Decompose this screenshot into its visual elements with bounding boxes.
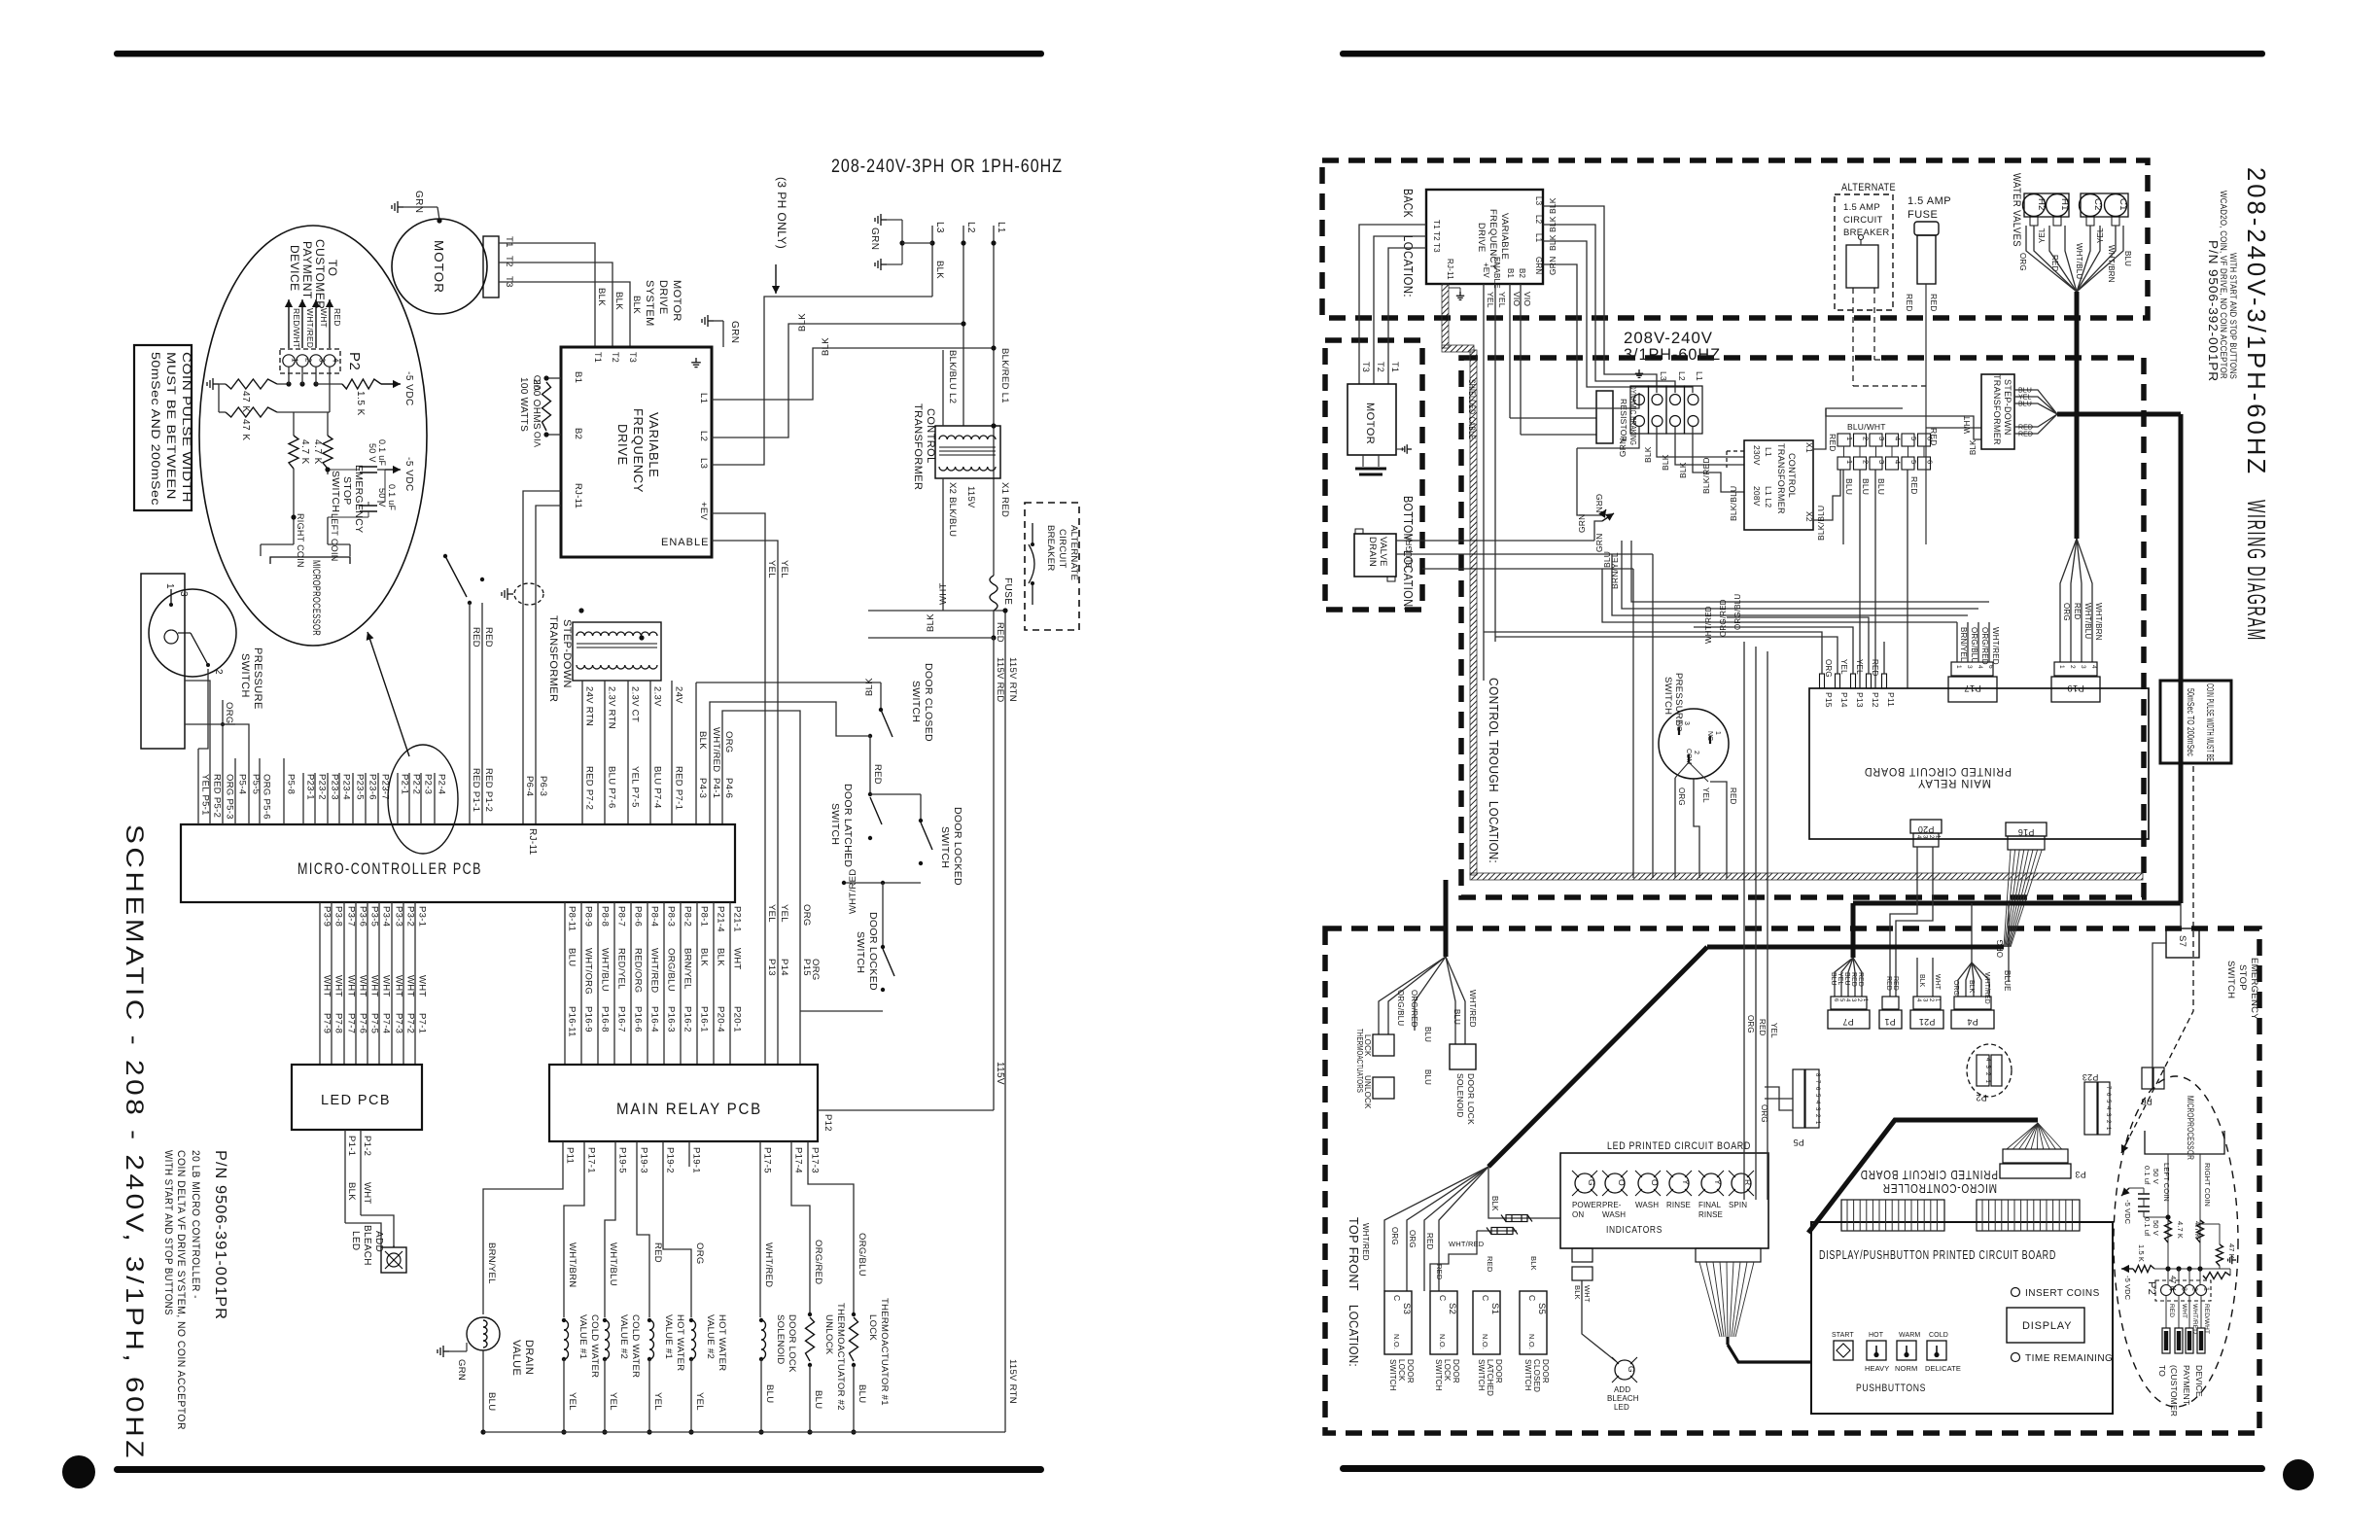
svg-text:WHT/BRN: WHT/BRN (567, 1242, 577, 1287)
svg-text:WHT: WHT (2181, 1304, 2187, 1318)
svg-text:P8-6: P8-6 (633, 906, 644, 927)
svg-text:DOOR LOCKED: DOOR LOCKED (952, 807, 963, 886)
svg-text:WHT/BLU: WHT/BLU (608, 1242, 618, 1286)
svg-text:SWITCH: SWITCH (910, 681, 922, 722)
svg-text:BLUE: BLUE (2003, 970, 2012, 992)
svg-text:SWITCH: SWITCH (855, 931, 866, 973)
dynamic braking resistor (1510, 417, 1596, 419)
LED board tabs (1572, 1248, 1592, 1262)
left coin / right coin wires (right) (2167, 1154, 2169, 1285)
display/pushbutton board (1811, 1222, 2113, 1414)
svg-text:WHT: WHT (369, 975, 380, 997)
P23 connector (right) (2084, 1082, 2097, 1135)
svg-text:BLK/BLU L2: BLK/BLU L2 (947, 350, 958, 403)
micro-controller PCB U2 (181, 824, 735, 902)
svg-text:ORG/BLU: ORG/BLU (1733, 594, 1742, 630)
svg-text:RED: RED (1929, 428, 1939, 446)
svg-text:P5-4: P5-4 (237, 774, 248, 794)
svg-text:L1: L1 (698, 393, 709, 403)
pressure switch PS1 (141, 574, 185, 749)
svg-text:BLK/RED L1: BLK/RED L1 (999, 348, 1010, 403)
svg-text:RINSE: RINSE (1666, 1201, 1691, 1209)
svg-text:L3: L3 (934, 222, 945, 233)
micro PCB wires to main relay PCB (P8/P16) (564, 902, 566, 1065)
svg-text:L1: L1 (1695, 371, 1704, 381)
svg-text:BLEACH: BLEACH (362, 1225, 372, 1266)
svg-text:115V RED: 115V RED (995, 657, 1005, 703)
svg-text:WITH START AND STOP BUTTON: WITH START AND STOP BUTTONS (162, 1150, 174, 1315)
VFD output BLK BLK BLK to terminal block (1543, 206, 1657, 393)
svg-text:HOT WATER: HOT WATER (675, 1314, 685, 1371)
svg-text:P7-6: P7-6 (358, 1013, 368, 1033)
svg-text:RIGHT COIN: RIGHT COIN (2203, 1163, 2212, 1207)
svg-text:RED: RED (1850, 972, 1857, 987)
svg-text:CLOSED: CLOSED (1532, 1359, 1541, 1392)
capacitor 0.1 uF 50 V lower (367, 502, 369, 506)
ribbon cables (1841, 1200, 1944, 1231)
svg-text:RED: RED (1909, 476, 1919, 495)
svg-text:RED P7-2: RED P7-2 (584, 766, 595, 810)
svg-text:GRN: GRN (1577, 514, 1587, 534)
svg-text:WASH: WASH (1602, 1210, 1626, 1219)
svg-text:WHT/RED: WHT/RED (1361, 1223, 1370, 1261)
svg-text:2.3V CT: 2.3V CT (630, 686, 641, 722)
drain valve ground GRN (437, 1346, 449, 1357)
fuse F1 (990, 576, 997, 611)
P2 connector dashed circle (right) (1967, 1044, 2012, 1097)
wire VFD L1 to supply (712, 348, 994, 400)
svg-text:RED: RED (1929, 294, 1939, 312)
ground (right ellipse) (2228, 1256, 2236, 1264)
svg-text:YEL: YEL (1486, 292, 1495, 308)
P20 connector (1910, 820, 1942, 833)
svg-text:P6-4: P6-4 (524, 776, 535, 796)
svg-text:ORG: ORG (1390, 1227, 1399, 1245)
svg-text:BLU: BLU (1423, 1069, 1432, 1085)
svg-text:4: 4 (332, 358, 340, 363)
wire VFD L2 to supply (712, 324, 963, 437)
svg-text:PRESSURE: PRESSURE (252, 647, 263, 710)
svg-text:5: 5 (1909, 437, 1918, 440)
svg-text:ORG: ORG (694, 1242, 705, 1265)
svg-text:LOCK: LOCK (1397, 1359, 1406, 1382)
svg-text:BLK: BLK (346, 1182, 357, 1201)
resistor 1.5 K (right) (2133, 1266, 2154, 1273)
svg-text:YEL P5-1: YEL P5-1 (200, 774, 211, 816)
svg-text:WHT: WHT (346, 975, 357, 997)
svg-text:VALUE: VALUE (510, 1340, 522, 1376)
YEL pair from VFD to P13/P14 (712, 513, 765, 1065)
svg-text:2.3V: 2.3V (652, 686, 663, 707)
GRN arrow 2 (1577, 448, 1602, 515)
svg-text:WHT/BRN: WHT/BRN (2094, 603, 2103, 641)
svg-text:1.5 AMP: 1.5 AMP (1907, 195, 1951, 207)
svg-text:T1: T1 (504, 236, 514, 248)
svg-text:ON: ON (1572, 1210, 1584, 1219)
svg-text:VALUE #2: VALUE #2 (705, 1314, 716, 1359)
svg-text:X1 RED: X1 RED (999, 482, 1010, 517)
control transformer (wiring) (1744, 440, 1813, 530)
svg-text:TRANSFORMER: TRANSFORMER (1776, 443, 1786, 514)
svg-text:BLK: BLK (596, 288, 607, 306)
svg-text:BLU: BLU (567, 948, 577, 966)
svg-text:P17-3: P17-3 (810, 1147, 821, 1173)
svg-text:50 V: 50 V (2152, 1169, 2160, 1184)
svg-text:P4: P4 (1967, 1017, 1977, 1027)
svg-text:6: 6 (1987, 665, 1994, 669)
svg-text:P19-5: P19-5 (617, 1147, 628, 1173)
svg-text:G: G (1587, 1179, 1596, 1186)
drain valve leads GRN BLU BRN/YEL (1396, 540, 1594, 542)
svg-text:PRESSURE: PRESSURE (1673, 673, 1684, 726)
svg-text:ORG/RED: ORG/RED (1980, 627, 1989, 665)
svg-text:LED PRINTED CIRCUIT BOARD: LED PRINTED CIRCUIT BOARD (1607, 1140, 1751, 1152)
svg-text:CONTROL: CONTROL (1787, 453, 1797, 498)
VFD chassis ground GRN (702, 315, 714, 327)
YEL YEL VIO VIO leads (1483, 284, 1485, 681)
svg-text:RED P7-1: RED P7-1 (674, 766, 684, 810)
svg-text:ENABLE: ENABLE (1492, 257, 1501, 289)
svg-text:RED: RED (1425, 1233, 1434, 1250)
svg-text:LOCATION:: LOCATION: (1401, 235, 1416, 297)
svg-text:L1 L2: L1 L2 (1764, 486, 1773, 507)
svg-text:BLK: BLK (613, 292, 624, 310)
svg-text:4: 4 (2090, 665, 2097, 669)
svg-text:S3: S3 (1401, 1303, 1412, 1314)
svg-text:YEL: YEL (2038, 227, 2047, 243)
svg-text:WIRING DIAGRAM: WIRING DIAGRAM (2242, 500, 2271, 642)
terminal block output leads (1577, 426, 1639, 448)
svg-text:BLK: BLK (699, 948, 710, 966)
page frame bars (114, 51, 1044, 57)
door lock solenoid (wiring) (1450, 1044, 1476, 1069)
svg-text:LOCATION:: LOCATION: (1347, 1305, 1360, 1367)
svg-text:SCHEMATIC - 208 - 240V, 3: SCHEMATIC - 208 - 240V, 3/1PH, 60HZ (121, 824, 148, 1461)
svg-text:O: O (1650, 1179, 1660, 1186)
svg-text:H2: H2 (2036, 198, 2047, 211)
svg-text:24V RTN: 24V RTN (584, 686, 595, 726)
VFD (wiring) U1 (1426, 190, 1543, 284)
svg-text:DRAIN: DRAIN (1367, 537, 1378, 567)
svg-text:DOOR LATCHED: DOOR LATCHED (842, 784, 854, 867)
VFD internal ground pin (691, 358, 701, 367)
svg-text:YEL: YEL (1701, 787, 1710, 803)
svg-text:P3: P3 (2075, 1170, 2085, 1179)
svg-text:RED P5-2: RED P5-2 (212, 774, 223, 818)
P16 connector (2006, 822, 2047, 836)
svg-text:VARIABLE: VARIABLE (1499, 213, 1510, 260)
svg-text:HOT WATER: HOT WATER (717, 1314, 727, 1371)
svg-text:P16-1: P16-1 (699, 1006, 710, 1032)
svg-text:DRAIN: DRAIN (523, 1340, 535, 1375)
svg-text:WHT/RED: WHT/RED (305, 308, 315, 348)
svg-text:YEL: YEL (1769, 1023, 1778, 1038)
svg-text:4: 4 (1894, 437, 1903, 440)
RED pair to P1 (469, 603, 471, 824)
svg-text:DOOR: DOOR (1541, 1359, 1550, 1383)
svg-text:MICROPROCESSOR: MICROPROCESSOR (310, 560, 322, 636)
LED PCB bottom wires P1-1 P1-2 (344, 1130, 346, 1223)
svg-text:P7-4: P7-4 (381, 1013, 392, 1033)
connector P2 (payment device) (280, 349, 340, 373)
svg-text:1: 1 (1845, 437, 1854, 440)
svg-text:DRIVE: DRIVE (657, 280, 669, 315)
svg-text:(3 PH ONLY): (3 PH ONLY) (775, 177, 788, 249)
cable fan to P19 (2060, 539, 2077, 662)
svg-text:COLD: COLD (1929, 1332, 1948, 1339)
svg-text:5: 5 (1909, 460, 1918, 464)
svg-text:WHT/RED: WHT/RED (1991, 627, 2000, 665)
svg-text:BLU: BLU (2018, 402, 2032, 408)
svg-text:P7-1: P7-1 (417, 1013, 428, 1033)
svg-text:BLK: BLK (821, 337, 831, 356)
svg-text:MICRO-CONTROLLER: MICRO-CONTROLLER (1882, 1181, 1997, 1195)
svg-text:RED: RED (1729, 787, 1737, 805)
thermoactuators lock/unlock (1373, 1034, 1394, 1056)
ferrite bead on P6 pair (502, 588, 513, 600)
svg-text:BLK: BLK (934, 261, 945, 279)
115V RTN bus (1004, 611, 1006, 1432)
svg-text:RED: RED (1885, 976, 1892, 991)
svg-text:BACK: BACK (1401, 189, 1416, 218)
VFD GRN lead (1543, 264, 1639, 408)
svg-text:WASH: WASH (1635, 1201, 1659, 1209)
P3 connector fan (2007, 1123, 2038, 1149)
svg-text:ADD: ADD (1614, 1385, 1630, 1394)
svg-text:ORG/RED: ORG/RED (813, 1240, 823, 1284)
svg-text:SWITCH: SWITCH (239, 653, 251, 698)
svg-text:100 WATTS: 100 WATTS (518, 377, 529, 432)
svg-text:WHT: WHT (1583, 1285, 1592, 1303)
svg-text:GRN: GRN (869, 227, 880, 250)
svg-text:RED: RED (1486, 1256, 1494, 1273)
svg-text:BLU: BLU (857, 1384, 867, 1403)
svg-text:P23-2: P23-2 (317, 774, 328, 800)
svg-text:BLU: BLU (2018, 388, 2032, 395)
door closed switch S5 (696, 682, 881, 683)
svg-text:(CUSTOMER: (CUSTOMER (2169, 1365, 2179, 1417)
X1 RED lead (1813, 408, 1903, 449)
svg-text:P23-6: P23-6 (367, 774, 378, 800)
door latched switch S1 (869, 736, 871, 794)
motor leads T1 T2 T3 (wiring) (1359, 225, 1426, 384)
microprocessor bracket + label (270, 557, 350, 564)
svg-text:YEL: YEL (1497, 292, 1507, 308)
svg-text:3: 3 (1877, 460, 1886, 464)
svg-text:BLU: BLU (1876, 478, 1886, 495)
svg-text:WHT: WHT (394, 975, 404, 997)
WHT wire to RTN (868, 610, 1005, 612)
svg-text:VALUE #1: VALUE #1 (663, 1314, 674, 1359)
svg-text:1: 1 (2058, 665, 2065, 669)
svg-text:WHT: WHT (1963, 415, 1972, 434)
svg-text:RED: RED (1905, 294, 1914, 312)
svg-text:P4-3: P4-3 (697, 778, 708, 798)
svg-text:P13: P13 (766, 959, 777, 976)
svg-text:T2: T2 (611, 352, 620, 363)
svg-text:P1-2: P1-2 (362, 1136, 372, 1156)
svg-text:N.O.: N.O. (1438, 1334, 1447, 1349)
add bleach LED D1 (345, 1223, 381, 1247)
P7 connector fan (1835, 958, 1853, 997)
connector P19 (2054, 662, 2097, 676)
svg-text:C: C (1481, 1295, 1490, 1301)
thick cable to right edge (2057, 412, 2181, 417)
svg-text:BLK: BLK (1548, 216, 1557, 232)
node bus (right ellipse) (2154, 1268, 2230, 1270)
svg-text:NORM: NORM (1895, 1364, 1917, 1373)
svg-text:RED: RED (1892, 976, 1899, 991)
svg-text:GRN: GRN (1618, 438, 1627, 458)
micro bundle thick cable (1853, 901, 2181, 906)
svg-text:P16-8: P16-8 (600, 1006, 611, 1032)
svg-text:PUSHBUTTONS: PUSHBUTTONS (1856, 1382, 1926, 1394)
svg-text:BRN/YEL: BRN/YEL (682, 948, 693, 990)
svg-text:VIO: VIO (533, 432, 542, 447)
svg-text:RED: RED (1435, 1264, 1444, 1280)
svg-text:RED: RED (483, 627, 494, 647)
svg-text:GRN: GRN (413, 191, 424, 213)
svg-text:P23-1: P23-1 (305, 774, 316, 800)
BLK wire and splices (1488, 1167, 1560, 1218)
svg-text:BLK: BLK (1573, 1285, 1582, 1300)
svg-text:WHT/RED: WHT/RED (763, 1242, 774, 1287)
thermoactuator #2 unlock (791, 1167, 810, 1314)
svg-text:47 K: 47 K (240, 391, 251, 413)
svg-text:YEL: YEL (779, 904, 789, 923)
svg-text:B2: B2 (573, 428, 583, 439)
svg-text:RED: RED (995, 622, 1005, 643)
svg-text:ORG: ORG (801, 904, 812, 927)
svg-text:1: 1 (164, 583, 175, 589)
svg-text:SYSTEM: SYSTEM (644, 280, 655, 327)
svg-text:P2-3: P2-3 (423, 774, 434, 794)
svg-text:DRIVE: DRIVE (1476, 223, 1487, 253)
svg-text:H1: H1 (2059, 198, 2070, 211)
svg-text:MUST BE BETWEEN: MUST BE BETWEEN (164, 352, 178, 500)
door switch S3 S2 S1 S5 boxes (1384, 1291, 1412, 1354)
-5 VDC arrow upper (381, 383, 401, 385)
svg-text:DOOR: DOOR (1494, 1359, 1503, 1383)
svg-text:P17-1: P17-1 (586, 1147, 597, 1173)
svg-text:4: 4 (1977, 665, 1983, 669)
svg-text:BLU: BLU (486, 1392, 497, 1411)
svg-text:50mSec AND 200mSec: 50mSec AND 200mSec (149, 352, 162, 506)
svg-text:P4-6: P4-6 (723, 778, 734, 798)
svg-text:P23-5: P23-5 (355, 774, 366, 800)
coin pulse width note box (134, 345, 192, 510)
svg-text:LOCK: LOCK (1363, 1034, 1372, 1057)
wires ORG RED YEL verticals to display board (1743, 642, 1745, 1200)
svg-text:BLU: BLU (813, 1390, 823, 1409)
svg-text:P16-4: P16-4 (649, 1006, 660, 1032)
svg-text:3: 3 (178, 591, 189, 597)
variable frequency drive U1 (561, 347, 712, 557)
svg-text:BLK: BLK (797, 313, 808, 332)
resistor 47 K horizontal (right) (2203, 1273, 2230, 1279)
svg-text:208-240V-3/1PH-60HZ: 208-240V-3/1PH-60HZ (2242, 167, 2271, 476)
svg-text:PRE-: PRE- (1602, 1201, 1622, 1209)
svg-text:P16-2: P16-2 (682, 1006, 693, 1032)
svg-text:3: 3 (318, 358, 327, 363)
svg-text:1.5 K: 1.5 K (2137, 1244, 2146, 1262)
svg-text:-5 VDC: -5 VDC (403, 371, 414, 406)
svg-text:T3: T3 (628, 352, 638, 363)
svg-text:BLK: BLK (1918, 974, 1925, 988)
control transformer T2 (935, 426, 1000, 478)
svg-text:GRN: GRN (1548, 257, 1557, 276)
svg-text:INDICATORS: INDICATORS (1606, 1225, 1662, 1236)
svg-text:S2: S2 (1447, 1303, 1457, 1314)
svg-text:P2-4: P2-4 (437, 774, 447, 794)
-5 VDC arrow lower (377, 469, 385, 471)
svg-text:-5 VDC: -5 VDC (403, 457, 414, 492)
svg-text:RED: RED (872, 764, 883, 785)
svg-text:BLK: BLK (716, 948, 726, 966)
svg-text:P8-7: P8-7 (616, 906, 627, 927)
svg-text:BLK/BLU: BLK/BLU (1816, 506, 1826, 541)
svg-text:LOCK: LOCK (1443, 1359, 1452, 1382)
svg-text:BLU: BLU (1423, 1027, 1432, 1042)
wires into step-down (wiring) (1926, 427, 1981, 429)
svg-text:BLU: BLU (1844, 478, 1854, 495)
svg-text:0.1 uf: 0.1 uf (2143, 1217, 2152, 1237)
LED board 9-pin connector (1696, 1248, 1761, 1262)
drain valve (wiring) (1354, 534, 1396, 577)
svg-text:BLK: BLK (1548, 234, 1557, 251)
ground (payment circuit) (207, 378, 219, 390)
svg-text:RED: RED (1871, 659, 1879, 677)
svg-text:TRANSFORMER: TRANSFORMER (547, 615, 559, 702)
svg-text:P8-9: P8-9 (583, 906, 594, 927)
svg-text:RJ-11: RJ-11 (1446, 259, 1454, 280)
svg-text:P8-1: P8-1 (699, 906, 710, 927)
payment device ellipse (right) (2114, 1076, 2238, 1407)
resistor 4.7 K b (right) (2197, 1220, 2204, 1242)
svg-text:WHT: WHT (381, 975, 392, 997)
svg-text:0.1 uf: 0.1 uf (2143, 1166, 2152, 1185)
svg-text:L2: L2 (965, 222, 976, 233)
svg-text:TRANSFORMER: TRANSFORMER (912, 403, 924, 490)
arrow from P2 pins ellipse to payment ellipse (367, 632, 409, 756)
svg-text:C: C (1392, 1295, 1402, 1301)
svg-text:3/1PH-60HZ: 3/1PH-60HZ (1624, 345, 1721, 364)
svg-text:P16-11: P16-11 (567, 1006, 577, 1037)
microprocessor (right) (2145, 1131, 2224, 1154)
P21 connector (1916, 958, 1918, 997)
resistor 1.5 K (316, 383, 342, 385)
svg-text:VALVE: VALVE (1378, 537, 1388, 567)
svg-text:P8-8: P8-8 (600, 906, 611, 927)
svg-text:L1: L1 (1764, 447, 1773, 457)
load coils: water valves (564, 1167, 584, 1317)
svg-text:P6-3: P6-3 (538, 776, 548, 796)
svg-text:P1: P1 (1884, 1017, 1895, 1027)
svg-text:SWITCH: SWITCH (829, 803, 841, 845)
svg-text:P2-2: P2-2 (411, 774, 422, 794)
svg-text:P21-1: P21-1 (732, 906, 743, 932)
svg-text:YEL: YEL (1837, 972, 1843, 985)
svg-text:P8-2: P8-2 (682, 906, 693, 927)
svg-text:YEL: YEL (779, 560, 789, 578)
svg-text:FUSE: FUSE (1907, 209, 1938, 221)
svg-text:RJ-11: RJ-11 (573, 483, 583, 508)
strip output leads BLU BLU BLU RED (1842, 470, 1844, 544)
svg-text:HOT: HOT (1869, 1332, 1884, 1339)
svg-text:L2: L2 (1534, 215, 1543, 225)
svg-text:3: 3 (1966, 665, 1973, 669)
svg-text:BLU P7-6: BLU P7-6 (607, 766, 617, 809)
